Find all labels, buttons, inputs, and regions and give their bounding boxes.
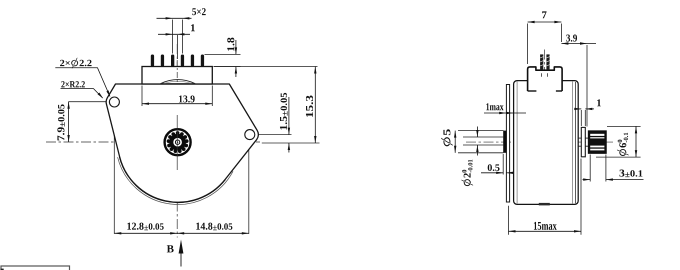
dim 1.5+-0.05: dimension lines with outside arrows: [288, 97, 290, 135]
lens bump on flange top: [161, 80, 196, 84]
right mounting hole 2.2 dia: [245, 130, 255, 140]
dim 3.9: extension line right: [586, 45, 588, 127]
motor body side outline: [514, 81, 579, 205]
dim dia6: extension lines: [607, 125, 641, 127]
dim dia6: dimension line: [635, 126, 637, 157]
dim 15.3: extension line upper: [214, 66, 318, 68]
dim 1max: line with arrows: [484, 112, 526, 114]
flange plate outline: [106, 84, 258, 202]
dim 3.9: dimension line: [561, 43, 596, 45]
dim 1.5+-0.05: text rotated: [280, 93, 288, 130]
dim dia6 0/-0.1: text rotated: [617, 133, 629, 156]
dim dia5: dimension line: [454, 131, 456, 153]
pin 2: [161, 55, 164, 67]
gear vertical centerline: [176, 115, 178, 170]
dim dia2: dimension lines outside arrows: [476, 127, 478, 138]
dim 0.5: extension + arrows: [502, 154, 504, 175]
dim 15.3: text rotated: [306, 95, 313, 117]
pin 4: [181, 55, 184, 67]
dim 15max: extension lines: [508, 206, 510, 235]
view label B with arrow: [167, 245, 174, 252]
pin 1: [151, 55, 154, 67]
node right hole vertical extension line: [248, 124, 250, 234]
label 2xR2.2 with leader: [61, 81, 85, 87]
node right hole horizontal centerline: [240, 134, 292, 136]
gear center hole: [173, 138, 182, 147]
centerline horizontal: [466, 141, 613, 143]
dim 5x2: dimension line and arrows: [157, 17, 192, 19]
dim 1.8: dimension line and arrows: [235, 40, 237, 54]
dim 14.8+-0.05 text: [196, 223, 232, 231]
pin B side (hatched): [546, 54, 549, 70]
label 2x dia 2.2 with leader: [60, 58, 92, 69]
dim dia2: extension lines: [463, 136, 504, 138]
dim 15max: text: [534, 222, 557, 230]
dim dia2 0/-0.01: text rotated: [461, 160, 473, 187]
dim 3+-0.1: extension lines: [589, 155, 591, 182]
motor body circle (can) thick bottom arc: [120, 157, 226, 203]
dim 3+-0.1: text: [619, 170, 642, 178]
bottom seam tab: [539, 203, 550, 206]
pin 3: [171, 55, 174, 67]
flange plate edge-on: [506, 85, 509, 203]
pin A side (hatched): [540, 54, 543, 70]
pinion gear side (striped): [588, 131, 606, 153]
centerline through block: [176, 60, 178, 84]
dim 1: dimension line and arrows: [158, 33, 190, 35]
dim 12.8 and 14.8: dimension line: [114, 232, 249, 234]
dim 15max: dimension line: [509, 230, 582, 232]
dim 13.9: dimension line: [142, 103, 212, 105]
rear shaft segments dia2: [578, 137, 581, 139]
title block corner fragment: [1, 266, 70, 270]
centerline vertical: [544, 50, 546, 207]
left mounting hole 2.2 dia: [109, 97, 119, 107]
can inner line left: [516, 82, 518, 204]
dim 7: dimension line: [528, 21, 562, 23]
connector inner ticks: [541, 73, 543, 77]
dim 3.9: text: [566, 35, 577, 42]
bearing plate dia6: [581, 127, 585, 156]
pinion gear front: outer ring: [165, 129, 191, 155]
dim 1 (plate): text: [597, 99, 601, 106]
dim 7: text: [542, 11, 546, 18]
dim dia5: extension lines: [458, 130, 504, 132]
dim 7: extension lines: [527, 24, 529, 65]
dim 7.9+-0.05: text rotated: [57, 104, 65, 140]
centerline horizontal main: [46, 141, 260, 143]
pin 6: [201, 55, 204, 67]
dim 1max: text: [486, 103, 503, 110]
dim 12.8+-0.05 text: [127, 223, 163, 231]
dim 13.9: extension lines: [141, 86, 143, 107]
dim 1.8: text rotated: [227, 38, 234, 51]
motor body bottom arc thin outer (flange rim): [118, 157, 233, 204]
gear shaft circle: [175, 140, 179, 144]
pin 5: [191, 55, 194, 67]
dim 13.9: text: [179, 95, 195, 102]
dim 1: text: [191, 24, 195, 31]
dim 7.9+-0.05: dimension line: [68, 102, 70, 142]
dim dia5: text rotated: [441, 129, 453, 146]
pin hatch marks: [540, 57, 550, 66]
can crimp line right: [574, 82, 576, 203]
dim 1.5+-0.05: extension line lower (flange corner line): [262, 142, 320, 144]
connector block side: [528, 67, 563, 91]
pinion gear front: tooth disk: [169, 134, 186, 151]
node left hole horizontal centerline: [68, 101, 126, 103]
can inner line right: [572, 82, 574, 204]
dim 15.3: dimension line: [314, 67, 316, 144]
centerline vertical main: [176, 44, 178, 238]
dim 0.5: text: [488, 164, 500, 171]
front hub dia5 edge-on (black): [503, 131, 506, 153]
node left hole vertical extension line: [113, 91, 115, 234]
dim 1.8: extension lines: [205, 53, 241, 55]
connector block front: [142, 67, 212, 85]
dim 1 (plate): lines and arrows: [576, 108, 582, 110]
dim 3+-0.1: dimension line outside arrows: [583, 179, 591, 181]
connector bottom edge segments: [528, 90, 537, 92]
dim 5x2: text: [192, 8, 205, 15]
dim 5x2: extension lines: [172, 20, 174, 54]
